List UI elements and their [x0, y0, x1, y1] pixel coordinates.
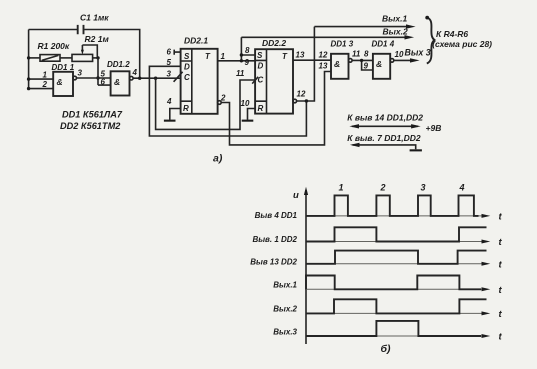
gate DD1.2 [111, 71, 134, 95]
svg-text:1: 1 [339, 183, 344, 193]
node pin 9 tap [240, 59, 243, 62]
node DD1.4 input tie [360, 59, 363, 62]
svg-text:D: D [184, 63, 190, 72]
wire R2 right lead [93, 57, 98, 59]
output arrow Vyh.1 [314, 26, 408, 28]
svg-text:4: 4 [459, 182, 465, 192]
svg-text:T: T [205, 52, 211, 61]
time axis trace 4 [306, 287, 490, 291]
node pin 1 tap on left rail [27, 77, 30, 80]
wire clock branch down and across to DD2.2 C input [156, 78, 256, 129]
time axis trace 1 [306, 214, 490, 218]
svg-text:&: & [57, 77, 63, 87]
power line +9V double arrow [349, 124, 420, 128]
svg-text:11: 11 [352, 50, 361, 59]
svg-text:Вых.1: Вых.1 [382, 14, 407, 24]
svg-text:DD1 3: DD1 3 [331, 40, 354, 49]
svg-text:2: 2 [380, 183, 386, 193]
svg-text:DD2.2: DD2.2 [262, 38, 286, 48]
svg-text:12: 12 [297, 89, 306, 98]
svg-text:11: 11 [236, 69, 245, 78]
gate DD1.1 [53, 72, 76, 96]
svg-text:DD1 1: DD1 1 [52, 63, 75, 72]
svg-text:1: 1 [221, 52, 226, 61]
svg-text:D: D [258, 62, 264, 71]
node D feedback tap [305, 99, 308, 102]
svg-text:3: 3 [421, 183, 426, 193]
svg-text:б): б) [381, 343, 392, 355]
wire D feedback from DD2.2 inverted output to DD2.1 D input [149, 66, 306, 136]
pin 6 stub with free-end bar [174, 50, 180, 55]
svg-text:&: & [334, 59, 340, 69]
svg-text:t: t [499, 237, 503, 248]
resistor R2 trimmer [72, 45, 97, 61]
svg-text:Выв. 1 DD2: Выв. 1 DD2 [252, 235, 297, 244]
svg-text:(схема рис 28): (схема рис 28) [432, 39, 492, 49]
svg-text:10: 10 [241, 99, 250, 108]
timing diagram voltage axis [304, 187, 308, 344]
wire R pin 4 to ground [170, 109, 181, 120]
capacitor C1 [78, 25, 84, 34]
svg-text:6: 6 [167, 48, 172, 57]
svg-text:5: 5 [167, 58, 172, 67]
svg-text:К R4-R6: К R4-R6 [436, 29, 468, 39]
svg-text:К выв. 7 DD1,DD2: К выв. 7 DD1,DD2 [347, 133, 421, 143]
wire clock line DD1.2 output to DD2.1 C input [133, 77, 181, 79]
svg-text:DD1 К561ЛА7: DD1 К561ЛА7 [62, 110, 123, 120]
svg-text:9: 9 [245, 58, 250, 67]
node clock tap to DD2.2 [154, 77, 157, 80]
svg-text:8: 8 [245, 46, 250, 55]
svg-text:а): а) [213, 153, 223, 165]
wire DD2.1 output 1 to DD2.2 D pin 9 [218, 60, 256, 62]
time axis trace 6 [306, 334, 490, 338]
waveform Vyv 13 DD2 [306, 251, 487, 264]
svg-text:2: 2 [220, 93, 226, 102]
svg-text:t: t [499, 309, 503, 320]
svg-text:6: 6 [101, 77, 106, 86]
ground [410, 149, 422, 151]
svg-text:DD2.1: DD2.1 [184, 36, 208, 46]
wire R1 to R2 [60, 57, 72, 59]
svg-text:DD2 К561ТМ2: DD2 К561ТМ2 [60, 121, 121, 131]
svg-text:9: 9 [364, 62, 369, 71]
svg-text:13: 13 [296, 50, 305, 59]
wire inverted output 2 down to DD1.3 pin 13 line [221, 72, 331, 145]
svg-text:Вых.2: Вых.2 [273, 304, 297, 313]
svg-text:Вых.1: Вых.1 [273, 280, 297, 289]
flip-flop DD2.2 inverted output 12 [293, 99, 297, 103]
wire DD1.3 output to DD1.4 inputs [352, 60, 373, 70]
svg-text:C: C [258, 76, 264, 85]
svg-text:Вых.2: Вых.2 [383, 27, 408, 37]
svg-text:R2 1м: R2 1м [85, 34, 110, 44]
svg-text:+9В: +9В [426, 123, 442, 133]
wire DD1.1 output to DD1.2 input pin 5 [77, 77, 111, 79]
ground DD2.1 [164, 120, 176, 122]
node pin 8 tap [240, 53, 243, 56]
svg-text:8: 8 [364, 50, 369, 59]
svg-text:&: & [376, 59, 382, 69]
wire DD2.2 output 13 to DD1.3 pin 12 [293, 59, 331, 61]
svg-text:Выв 13 DD2: Выв 13 DD2 [250, 257, 297, 266]
waveform Vyh.2 [306, 299, 487, 313]
wire R pin 10 to ground [248, 109, 256, 120]
ground line arrow [350, 143, 416, 150]
svg-text:3: 3 [78, 69, 83, 78]
wire left rail to R1 [29, 57, 40, 59]
svg-text:t: t [499, 332, 503, 343]
waveform Vyh.1 [306, 276, 481, 290]
svg-text:Вых 3: Вых 3 [405, 47, 431, 57]
wire top rail from C1 right plate down to clock node [84, 30, 140, 79]
node R2 wiper junction [96, 56, 99, 59]
svg-text:3: 3 [167, 70, 172, 79]
svg-text:С1 1мк: С1 1мк [80, 13, 109, 23]
svg-text:4: 4 [166, 97, 172, 106]
svg-text:4: 4 [132, 68, 138, 77]
flip-flop DD2.1 [174, 49, 218, 114]
svg-text:S: S [184, 52, 190, 61]
time axis trace 2 [306, 240, 490, 244]
svg-text:Вых.3: Вых.3 [273, 328, 297, 337]
svg-text:R: R [258, 104, 264, 113]
node R1 left [27, 56, 30, 59]
wire branch up from output1 wire to pin 8 and Vyh.2 rail [241, 37, 255, 61]
svg-text:1: 1 [43, 71, 48, 80]
output arrow Vyh.2 [241, 36, 406, 38]
output arrow Vyh.3 [394, 59, 412, 61]
svg-text:t: t [499, 285, 503, 296]
svg-text:R: R [183, 104, 189, 113]
wire inverted output 12 to Vyh.1 rail [297, 27, 315, 101]
node pin 2 corner [27, 87, 30, 90]
svg-text:и: и [293, 190, 299, 201]
wire left vertical rail [28, 30, 30, 89]
gate DD1.3 [331, 54, 352, 79]
svg-text:C: C [184, 73, 190, 82]
time axis trace 5 [306, 311, 490, 315]
node C1 feedback tap [138, 77, 141, 80]
waveform Vyv 4 DD1 clock [306, 195, 479, 216]
gate DD1.4 [373, 54, 394, 79]
wire R junction down to gate node and pin 6 hook [98, 58, 111, 85]
time axis trace 3 [306, 262, 490, 266]
svg-text:t: t [499, 259, 503, 270]
wire pin 1 of DD1.1 [29, 78, 54, 80]
brace to R4-R6 [425, 16, 434, 64]
flip-flop DD2.1 inverted output 2 [218, 101, 222, 105]
waveform Vyv.1 DD2 [306, 227, 487, 241]
svg-text:12: 12 [319, 51, 328, 60]
svg-text:S: S [257, 51, 263, 60]
ground DD2.2 [242, 120, 254, 122]
resistor R1 [40, 55, 60, 62]
node on DD1.1 output wire [96, 76, 99, 79]
svg-text:13: 13 [319, 62, 328, 71]
wire top rail from left vertical to C1 left plate [29, 29, 77, 31]
flip-flop DD2.2 [252, 49, 293, 113]
wire pin 2 of DD1.1 [29, 88, 54, 90]
svg-text:10: 10 [395, 50, 404, 59]
svg-text:Выв 4 DD1: Выв 4 DD1 [255, 211, 298, 220]
svg-text:К выв 14 DD1,DD2: К выв 14 DD1,DD2 [347, 113, 423, 123]
waveform Vyh.3 [306, 321, 481, 336]
svg-text:t: t [499, 211, 503, 222]
svg-text:DD1 4: DD1 4 [372, 40, 395, 49]
svg-text:DD1.2: DD1.2 [107, 60, 130, 69]
svg-text:&: & [114, 77, 120, 87]
svg-text:T: T [282, 52, 288, 61]
svg-text:R1 200к: R1 200к [38, 41, 70, 51]
